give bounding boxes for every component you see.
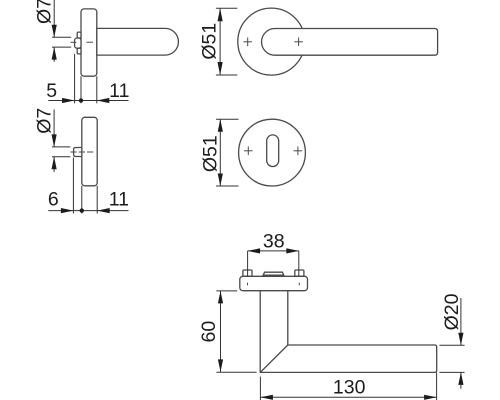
handle L-profile <box>260 291 437 373</box>
screw cross left (view2) <box>243 41 252 43</box>
svg-text:6: 6 <box>48 188 59 210</box>
screw lower tab <box>77 48 81 54</box>
dimension Ø51 (view2) lines <box>219 8 221 75</box>
dimension Ø51 (view4) lines <box>219 119 221 186</box>
dimension Ø20 lines <box>439 344 464 346</box>
right fixing screw <box>295 270 304 276</box>
screw cross right (view4) <box>294 150 303 152</box>
svg-text:38: 38 <box>263 230 285 252</box>
rose plate (top) <box>240 276 308 290</box>
screw cross right (view2) <box>294 41 303 43</box>
svg-text:5: 5 <box>46 80 57 102</box>
cylinder boss <box>74 148 82 157</box>
screw upper tab <box>77 32 81 38</box>
dimension 6 / 11 (view3) lines <box>72 158 74 214</box>
svg-text:11: 11 <box>109 80 129 102</box>
screw centreline <box>71 41 77 43</box>
svg-text:130: 130 <box>333 377 366 399</box>
screw head <box>75 38 81 48</box>
left fixing screw <box>243 270 252 276</box>
screw cross left (view4) <box>244 150 253 152</box>
svg-text:60: 60 <box>198 321 220 343</box>
lever grip (side) <box>97 28 179 55</box>
dimension Ø7 (view3) lines <box>53 110 55 147</box>
rose plate (side) <box>81 9 97 76</box>
screw tick right <box>298 283 300 286</box>
dimension 5 / 11 (view1) lines <box>74 54 76 103</box>
screw tick left <box>247 283 249 286</box>
svg-text:11: 11 <box>109 188 129 210</box>
dimension 60 lines <box>216 290 237 292</box>
rose circle Ø51 <box>238 8 305 75</box>
dashed centreline (view3) <box>70 151 94 153</box>
svg-text:Ø51: Ø51 <box>200 135 222 172</box>
svg-text:Ø20: Ø20 <box>441 293 463 330</box>
escutcheon plate (side) <box>82 117 97 186</box>
svg-text:Ø51: Ø51 <box>199 23 221 60</box>
dimension 38 lines <box>247 251 249 276</box>
svg-text:Ø7: Ø7 <box>34 0 56 24</box>
spindle hub <box>263 272 285 276</box>
keyhole slot <box>267 135 279 167</box>
centre dash in rose <box>87 41 94 43</box>
svg-text:Ø7: Ø7 <box>34 108 56 134</box>
escutcheon circle Ø51 <box>239 119 306 186</box>
dimension Ø7 (view1) lines <box>53 0 55 37</box>
lever grip (front) <box>262 29 438 56</box>
mitre line <box>260 345 288 372</box>
dimension 130 lines <box>259 377 261 400</box>
